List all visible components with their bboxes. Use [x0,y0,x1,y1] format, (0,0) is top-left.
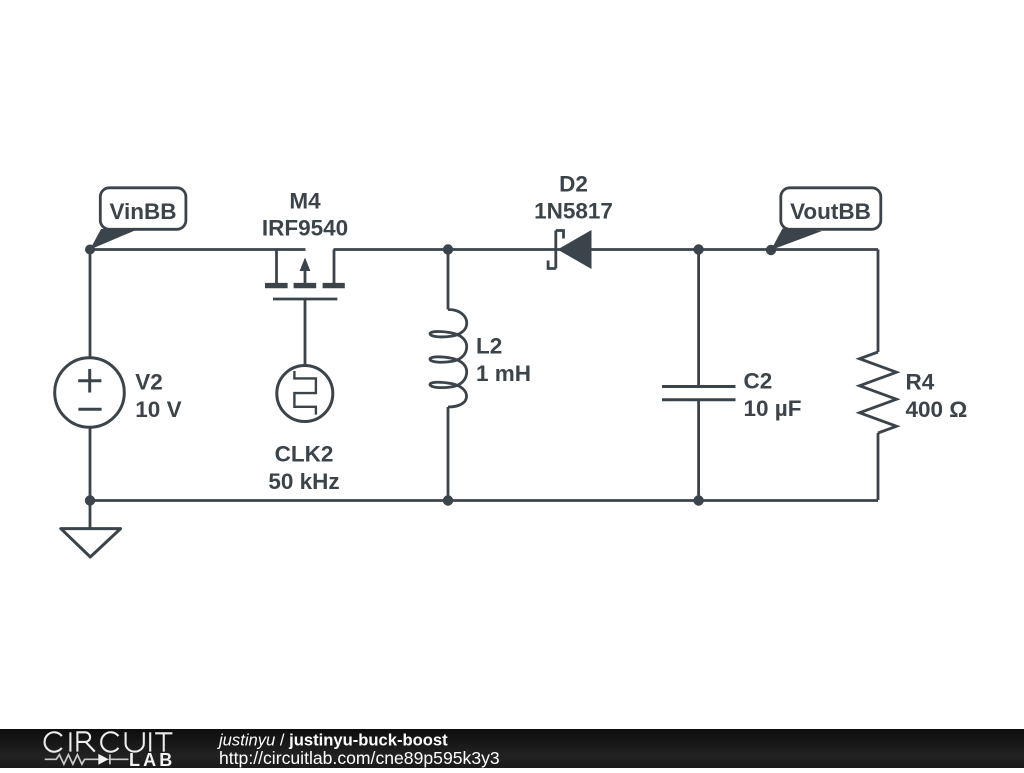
node C2 bottom junction dot [693,495,703,505]
svg-text:1 mH: 1 mH [476,361,531,386]
svg-text:10 µF: 10 µF [744,396,802,421]
inductor L2 [430,310,467,408]
resistor R4 [860,352,897,433]
label M4 [262,189,348,241]
ground [61,529,121,557]
CircuitLab logo diode glyph [98,754,108,765]
node VinBB junction dot [85,245,95,255]
node flag VinBB [90,188,186,250]
label R4 [906,370,968,423]
svg-text:L2: L2 [476,334,502,359]
node C2 top junction dot [693,244,703,254]
transistor M4 body arrow [300,258,311,272]
node VoutBB junction dot [766,245,776,255]
svg-text:D2: D2 [559,172,588,197]
wire inductor bottom [447,407,450,500]
label L2 [476,334,531,387]
wire resistor top [877,250,880,353]
svg-text:V2: V2 [135,370,163,395]
svg-text:R4: R4 [906,370,935,395]
svg-text:LAB: LAB [129,750,175,768]
svg-text:M4: M4 [289,189,321,214]
label D2 [534,172,613,224]
svg-text:10 V: 10 V [135,397,181,422]
label C2 [744,369,802,422]
svg-text:C2: C2 [744,369,773,394]
svg-text:VinBB: VinBB [109,199,176,224]
node flag VoutBB [771,188,881,250]
label CLK2 [268,442,339,495]
wire top-right segment [334,248,879,251]
label V2 value [135,370,181,423]
wire top-left segment [90,248,306,251]
svg-text:50 kHz: 50 kHz [268,469,339,494]
wire capacitor bottom [697,401,700,501]
wire left vertical upper [89,250,92,358]
clock source CLK2 [277,366,333,422]
diode D2 (Schottky) [548,231,563,269]
svg-text:CLK2: CLK2 [275,442,334,467]
svg-text:VoutBB: VoutBB [790,199,871,224]
svg-text:400 Ω: 400 Ω [906,397,968,422]
node L2 top junction dot [443,244,453,254]
CircuitLab logo wire glyph [45,754,129,764]
node L2 bottom junction dot [443,495,453,505]
svg-text:justinyu / justinyu-buck-boost: justinyu / justinyu-buck-boost [217,730,448,749]
wire bottom rail [90,499,878,502]
node ground junction dot [85,495,95,505]
capacitor C2 [662,387,736,400]
wire left vertical lower [89,429,92,501]
wire capacitor top [697,250,700,386]
wire ground stub [89,501,92,529]
svg-text:http://circuitlab.com/cne89p59: http://circuitlab.com/cne89p595k3y3 [219,748,500,768]
diode D2 triangle [558,230,592,269]
voltage source V2 [55,358,125,428]
CircuitLab logo wordmark CIRCUIT (hand-drawn thin letters) [45,732,173,752]
svg-text:1N5817: 1N5817 [534,199,613,224]
transistor M4 (PMOS) [265,250,345,365]
svg-text:IRF9540: IRF9540 [262,216,348,241]
wire inductor top [447,250,450,310]
wire resistor bottom [877,433,880,500]
